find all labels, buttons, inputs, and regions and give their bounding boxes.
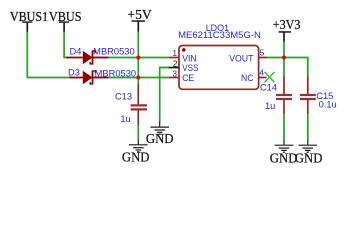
svg-text:1u: 1u bbox=[265, 101, 275, 111]
pin 1 indicator dot bbox=[182, 48, 186, 52]
svg-text:GND: GND bbox=[270, 151, 298, 166]
wire VBUS vertical to D4 anode bbox=[64, 32, 67, 58]
svg-text:C14: C14 bbox=[260, 82, 277, 92]
svg-text:1u: 1u bbox=[120, 114, 130, 124]
svg-text:D3: D3 bbox=[68, 67, 80, 77]
pin 3 stub bbox=[169, 77, 179, 79]
wire VBUS1 horizontal to D3 anode bbox=[27, 77, 70, 79]
wire D3 cathode to pin 3 CE bbox=[108, 77, 169, 79]
svg-text:3: 3 bbox=[172, 68, 177, 78]
capacitor C13 bbox=[131, 85, 147, 125]
svg-text:C13: C13 bbox=[115, 92, 132, 102]
svg-text:+5V: +5V bbox=[127, 7, 152, 22]
pin 2 stub (black) bbox=[169, 67, 180, 69]
pin 5 stub bbox=[259, 57, 267, 59]
ground for C13 bbox=[129, 140, 148, 152]
power port +5V bbox=[127, 7, 152, 32]
ground for VSS pin bbox=[150, 121, 169, 134]
ground for C14 bbox=[275, 141, 294, 153]
wire junction down to C14 bbox=[283, 58, 285, 78]
wire D4 cathode to pin 1 VIN bbox=[108, 57, 169, 59]
wire +3V3 stem lower green bbox=[283, 42, 285, 58]
wire VBUS1 vertical bbox=[26, 32, 28, 78]
regulator LDO1 body bbox=[179, 46, 259, 90]
wire C13 bottom to ground bbox=[137, 124, 139, 140]
svg-text:GND: GND bbox=[295, 151, 323, 166]
wire C14 bottom to ground bbox=[283, 114, 285, 142]
svg-text:0.1u: 0.1u bbox=[319, 99, 337, 109]
power port VBUS1 bbox=[10, 9, 48, 32]
pin 1 stub bbox=[169, 57, 179, 59]
svg-text:CE: CE bbox=[182, 73, 194, 83]
svg-text:D4: D4 bbox=[70, 47, 82, 57]
svg-text:VOUT: VOUT bbox=[229, 53, 254, 63]
svg-text:5: 5 bbox=[260, 47, 265, 57]
power port VBUS bbox=[49, 9, 82, 32]
svg-text:2: 2 bbox=[173, 58, 178, 68]
svg-text:GND: GND bbox=[146, 131, 174, 146]
wire VSS pin 2 to ground bbox=[160, 68, 169, 122]
wire C15 bottom to ground bbox=[307, 114, 309, 142]
capacitor C15 bbox=[300, 77, 316, 115]
svg-text:4: 4 bbox=[259, 68, 264, 78]
junction dot at +5V / D4 row bbox=[136, 55, 140, 59]
no-ERC marker X on NC pin bbox=[265, 72, 275, 82]
svg-text:MBR0530: MBR0530 bbox=[93, 47, 135, 57]
svg-text:ME6211C33M5G-N: ME6211C33M5G-N bbox=[178, 30, 261, 40]
wire VOUT pin 5 to +3V3 junction and C15 corner bbox=[267, 58, 308, 78]
pin 4 stub bbox=[259, 77, 267, 79]
power port +3V3 bbox=[273, 17, 301, 42]
svg-text:NC: NC bbox=[241, 73, 254, 83]
capacitor C14 bbox=[276, 77, 292, 115]
diode D3 bbox=[70, 70, 109, 84]
junction dot at VOUT / +3V3 / C14 bbox=[282, 55, 286, 59]
svg-text:1: 1 bbox=[172, 48, 177, 58]
svg-text:VIN: VIN bbox=[182, 53, 197, 63]
svg-text:GND: GND bbox=[122, 149, 150, 164]
diode D4 bbox=[66, 50, 108, 64]
svg-text:VSS: VSS bbox=[182, 63, 198, 73]
svg-text:+3V3: +3V3 bbox=[273, 17, 301, 32]
junction dot at D3 row / C13 bbox=[136, 75, 140, 79]
ground for C15 bbox=[299, 141, 318, 153]
wire +5V vertical down through junctions to C13 bbox=[137, 32, 139, 86]
